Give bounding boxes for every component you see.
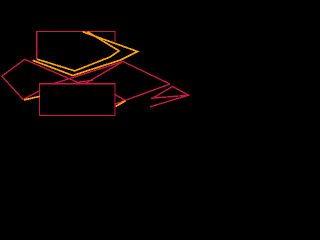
- upper red quad partial outline: [37, 32, 115, 60]
- long shallow crimson to peak apex: [53, 62, 123, 84]
- peak arms: [85, 62, 170, 85]
- orange quad outer: [33, 32, 138, 76]
- diamond: [2, 59, 81, 99]
- shallow line above rect: [76, 80, 93, 82]
- fan lines right of rect: [115, 84, 170, 104]
- bottom rectangle: [40, 84, 116, 116]
- orange near diamond apex: [24, 96, 40, 100]
- dart quad bottom right: [150, 87, 189, 107]
- orange quad inner: [37, 32, 119, 71]
- orange right of rect: [116, 101, 126, 107]
